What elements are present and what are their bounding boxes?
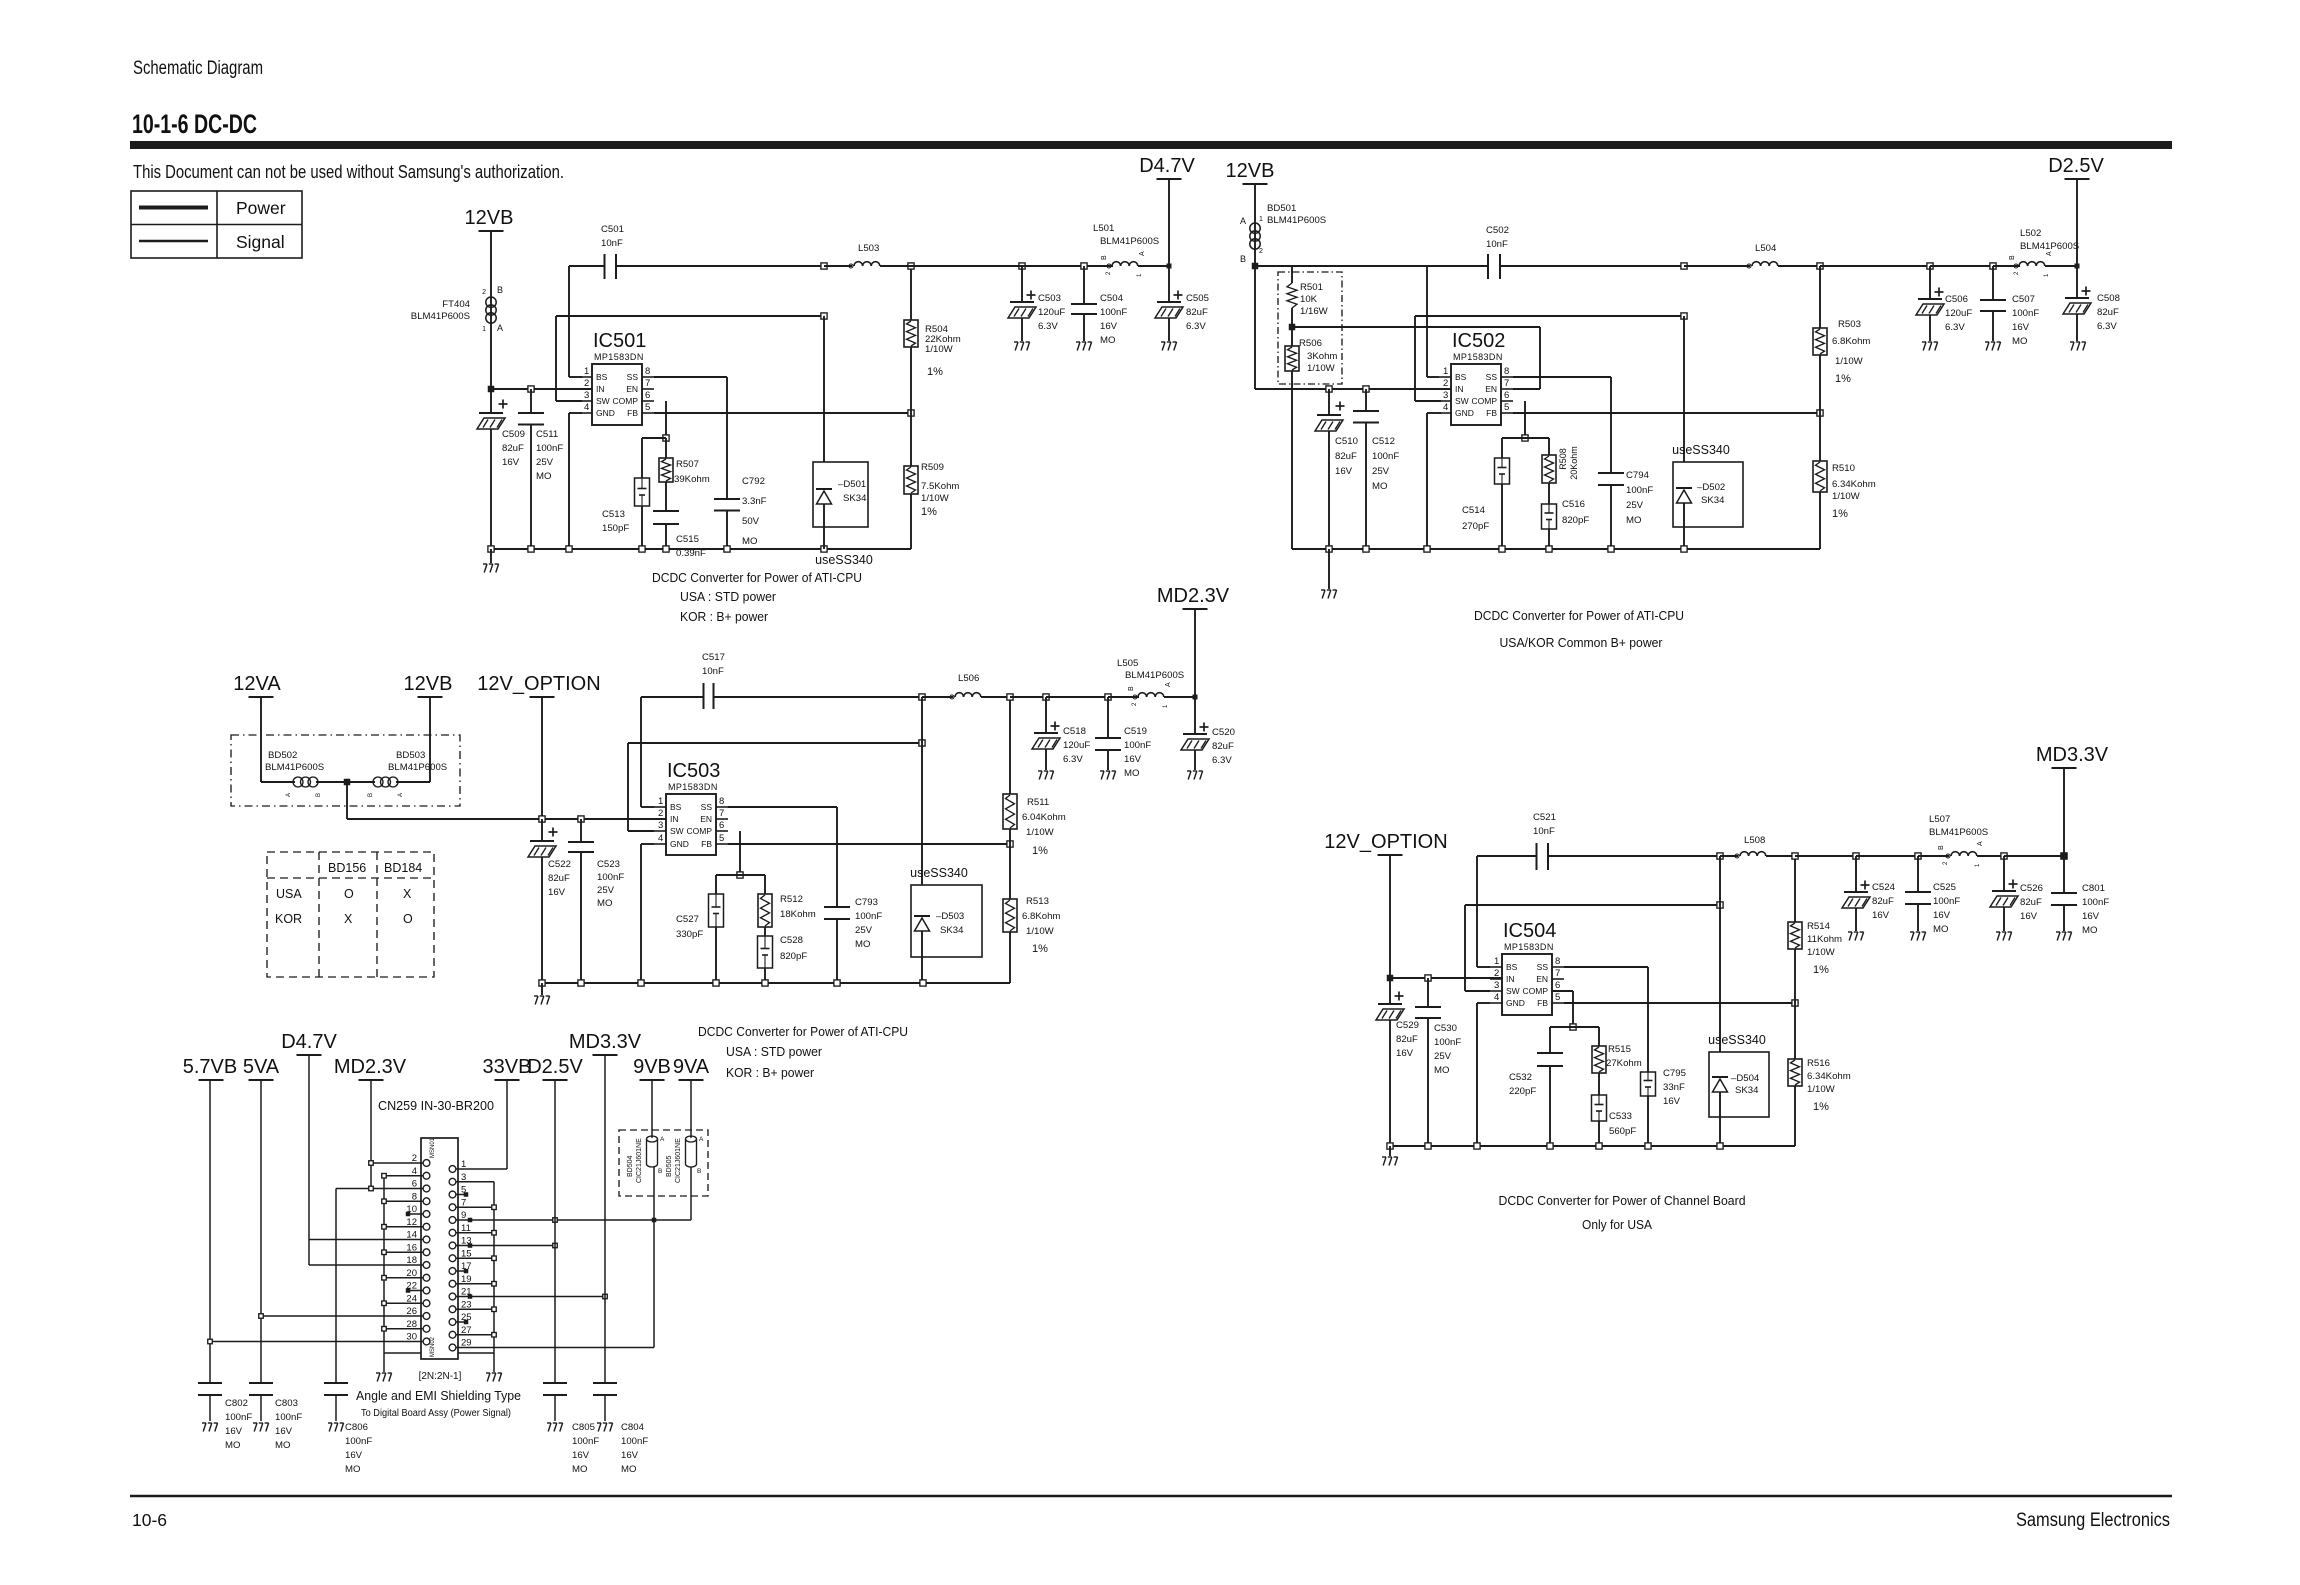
svg-text:16V: 16V [548, 887, 566, 898]
svg-text:25V: 25V [855, 925, 873, 936]
svg-text:3: 3 [658, 820, 663, 831]
svg-text:1%: 1% [927, 366, 943, 378]
svg-text:R513: R513 [1026, 896, 1049, 907]
svg-text:2: 2 [658, 808, 663, 819]
svg-text:25V: 25V [597, 885, 615, 896]
svg-text:BD502: BD502 [268, 750, 297, 761]
svg-text:2: 2 [1443, 378, 1448, 389]
svg-text:A: A [1165, 682, 1172, 687]
svg-text:COMP: COMP [1472, 396, 1498, 406]
svg-text:MO: MO [572, 1464, 587, 1475]
svg-text:82uF: 82uF [502, 443, 524, 454]
svg-text:560pF: 560pF [1609, 1126, 1636, 1137]
svg-text:SW: SW [596, 396, 610, 406]
svg-text:MO: MO [536, 471, 551, 482]
svg-text:B: B [497, 285, 503, 295]
svg-text:BD184: BD184 [384, 861, 422, 875]
svg-text:GND: GND [1506, 998, 1525, 1008]
svg-text:16V: 16V [1335, 466, 1353, 477]
svg-text:useSS340: useSS340 [1672, 443, 1730, 457]
svg-text:1: 1 [1494, 956, 1499, 967]
svg-text:B: B [368, 793, 374, 797]
svg-text:C515: C515 [676, 534, 699, 545]
svg-text:16V: 16V [345, 1450, 363, 1461]
svg-text:FB: FB [627, 408, 638, 418]
svg-text:C525: C525 [1933, 882, 1956, 893]
svg-text:C505: C505 [1186, 293, 1209, 304]
svg-text:BLM41P600S: BLM41P600S [388, 762, 447, 773]
svg-text:5VA: 5VA [243, 1056, 280, 1078]
svg-text:C501: C501 [601, 224, 624, 235]
svg-text:SW: SW [1506, 986, 1520, 996]
svg-text:1/10W: 1/10W [1807, 1084, 1836, 1095]
svg-text:100nF: 100nF [536, 443, 563, 454]
svg-text:6.3V: 6.3V [2097, 321, 2117, 332]
svg-text:A: A [398, 793, 404, 797]
svg-text:A: A [497, 323, 503, 333]
svg-text:6.34Kohm: 6.34Kohm [1807, 1071, 1851, 1082]
svg-text:6: 6 [1555, 980, 1560, 991]
svg-text:20Kohm: 20Kohm [1569, 446, 1579, 480]
svg-text:120uF: 120uF [1038, 307, 1065, 318]
svg-text:C520: C520 [1212, 727, 1235, 738]
svg-text:9VA: 9VA [673, 1056, 710, 1078]
svg-text:100nF: 100nF [345, 1436, 372, 1447]
svg-text:COMP: COMP [1523, 986, 1549, 996]
svg-text:7: 7 [1504, 378, 1509, 389]
svg-text:MP1583DN: MP1583DN [1504, 942, 1554, 952]
svg-text:100nF: 100nF [855, 911, 882, 922]
svg-text:12VB: 12VB [404, 673, 453, 695]
svg-text:1: 1 [482, 326, 486, 333]
svg-text:MO: MO [1372, 481, 1387, 492]
svg-text:6.8Kohm: 6.8Kohm [1832, 336, 1870, 347]
svg-text:12V_OPTION: 12V_OPTION [1324, 831, 1447, 853]
svg-text:39Kohm: 39Kohm [674, 474, 710, 485]
svg-text:IC501: IC501 [593, 330, 646, 352]
svg-text:DCDC Converter for Power of Ch: DCDC Converter for Power of Channel Boar… [1499, 1193, 1746, 1208]
svg-text:820pF: 820pF [780, 951, 807, 962]
svg-text:CIC21J601NE: CIC21J601NE [675, 1138, 682, 1183]
svg-text:C532: C532 [1509, 1072, 1532, 1083]
svg-text:82uF: 82uF [1396, 1034, 1418, 1045]
svg-text:A: A [2046, 251, 2053, 256]
svg-text:3Kohm: 3Kohm [1307, 351, 1337, 362]
svg-text:5: 5 [645, 402, 650, 413]
svg-text:6.04Kohm: 6.04Kohm [1022, 812, 1066, 823]
svg-text:L501: L501 [1093, 223, 1114, 234]
svg-text:2: 2 [1494, 968, 1499, 979]
svg-text:O: O [344, 887, 354, 901]
svg-text:R507: R507 [676, 459, 699, 470]
svg-text:IN: IN [1506, 974, 1515, 984]
svg-text:5.7VB: 5.7VB [183, 1056, 237, 1078]
svg-text:SS: SS [627, 372, 639, 382]
svg-text:8: 8 [645, 366, 650, 377]
svg-text:6.8Kohm: 6.8Kohm [1022, 911, 1060, 922]
svg-text:25V: 25V [1372, 466, 1390, 477]
svg-text:–D504: –D504 [1731, 1073, 1760, 1084]
svg-text:BLM41P600S: BLM41P600S [265, 762, 324, 773]
svg-text:3: 3 [584, 390, 589, 401]
svg-text:1%: 1% [1032, 943, 1048, 955]
svg-text:16V: 16V [2012, 322, 2030, 333]
svg-text:BLM41P600S: BLM41P600S [1100, 236, 1159, 247]
svg-text:1: 1 [1443, 366, 1448, 377]
svg-text:1: 1 [658, 796, 663, 807]
svg-text:2: 2 [482, 289, 486, 296]
svg-text:16V: 16V [275, 1426, 293, 1437]
svg-text:[2N:2N-1]: [2N:2N-1] [419, 1371, 462, 1382]
svg-text:CN259 IN-30-BR200: CN259 IN-30-BR200 [378, 1099, 494, 1113]
svg-text:12V_OPTION: 12V_OPTION [477, 673, 600, 695]
svg-text:C517: C517 [702, 652, 725, 663]
svg-text:1/10W: 1/10W [1026, 827, 1055, 838]
svg-text:100nF: 100nF [2082, 897, 2109, 908]
svg-text:L506: L506 [958, 673, 979, 684]
svg-text:3: 3 [1494, 980, 1499, 991]
svg-text:X: X [403, 887, 412, 901]
svg-text:10-6: 10-6 [132, 1510, 167, 1530]
svg-text:33VB: 33VB [483, 1056, 532, 1078]
svg-text:–D503: –D503 [936, 911, 964, 922]
svg-text:BLM41P600S: BLM41P600S [411, 311, 470, 322]
svg-text:16V: 16V [2020, 911, 2038, 922]
svg-text:BD505: BD505 [666, 1155, 673, 1177]
svg-text:X: X [344, 912, 353, 926]
svg-text:6.34Kohm: 6.34Kohm [1832, 479, 1876, 490]
svg-text:MSN01: MSN01 [430, 1137, 436, 1158]
svg-text:6.3V: 6.3V [1945, 322, 1965, 333]
svg-text:C803: C803 [275, 1398, 298, 1409]
svg-text:KOR : B+ power: KOR : B+ power [680, 610, 768, 624]
svg-text:25V: 25V [536, 457, 554, 468]
svg-text:COMP: COMP [687, 826, 713, 836]
svg-text:27Kohm: 27Kohm [1606, 1058, 1642, 1069]
svg-text:1%: 1% [1813, 964, 1829, 976]
svg-text:D4.7V: D4.7V [281, 1031, 337, 1053]
svg-text:A: A [1977, 841, 1984, 846]
svg-text:MD3.3V: MD3.3V [569, 1031, 642, 1053]
svg-text:1%: 1% [1832, 508, 1848, 520]
svg-text:5: 5 [719, 833, 724, 844]
svg-text:1%: 1% [1813, 1101, 1829, 1113]
svg-text:Signal: Signal [236, 232, 285, 252]
svg-text:1/10W: 1/10W [921, 493, 950, 504]
svg-text:C522: C522 [548, 859, 571, 870]
svg-text:220pF: 220pF [1509, 1086, 1536, 1097]
svg-text:2: 2 [584, 378, 589, 389]
svg-text:4: 4 [658, 833, 663, 844]
svg-text:C793: C793 [855, 897, 878, 908]
svg-text:MO: MO [275, 1440, 290, 1451]
svg-text:L508: L508 [1744, 835, 1765, 846]
svg-text:C502: C502 [1486, 225, 1509, 236]
svg-text:useSS340: useSS340 [1708, 1033, 1766, 1047]
svg-text:B: B [1240, 254, 1246, 264]
svg-text:GND: GND [1455, 408, 1474, 418]
svg-text:MO: MO [597, 898, 612, 909]
svg-text:EN: EN [700, 814, 712, 824]
svg-text:16V: 16V [1933, 910, 1951, 921]
svg-text:C801: C801 [2082, 883, 2105, 894]
svg-text:R508: R508 [1558, 448, 1568, 470]
svg-text:C513: C513 [602, 509, 625, 520]
svg-text:IC504: IC504 [1503, 920, 1556, 942]
svg-text:B: B [1128, 686, 1135, 691]
svg-text:330pF: 330pF [676, 929, 703, 940]
svg-text:6: 6 [645, 390, 650, 401]
svg-text:O: O [403, 912, 413, 926]
svg-text:BS: BS [1455, 372, 1467, 382]
svg-text:C514: C514 [1462, 505, 1486, 516]
svg-text:C507: C507 [2012, 294, 2035, 305]
svg-text:C530: C530 [1434, 1023, 1457, 1034]
svg-text:B: B [316, 793, 322, 797]
svg-text:useSS340: useSS340 [815, 553, 873, 567]
svg-text:16V: 16V [621, 1450, 639, 1461]
svg-text:6.3V: 6.3V [1212, 755, 1232, 766]
svg-text:MO: MO [1100, 335, 1115, 346]
svg-text:82uF: 82uF [1186, 307, 1208, 318]
svg-text:100nF: 100nF [1626, 485, 1653, 496]
svg-text:6.3V: 6.3V [1038, 321, 1058, 332]
svg-text:MD2.3V: MD2.3V [1157, 585, 1230, 607]
svg-text:IN: IN [670, 814, 679, 824]
svg-text:C519: C519 [1124, 726, 1147, 737]
svg-text:IC503: IC503 [667, 760, 720, 782]
svg-text:Samsung Electronics: Samsung Electronics [2016, 1510, 2170, 1531]
svg-text:MO: MO [855, 939, 870, 950]
svg-text:C521: C521 [1533, 812, 1556, 823]
svg-text:Only for USA: Only for USA [1582, 1218, 1653, 1232]
svg-text:R512: R512 [780, 894, 803, 905]
svg-text:82uF: 82uF [1872, 896, 1894, 907]
svg-text:5: 5 [1504, 402, 1509, 413]
svg-text:BD503: BD503 [396, 750, 425, 761]
svg-text:R515: R515 [1608, 1044, 1631, 1055]
svg-text:16V: 16V [1872, 910, 1890, 921]
svg-text:KOR: KOR [275, 912, 302, 926]
svg-text:4: 4 [1443, 402, 1448, 413]
svg-text:R503: R503 [1838, 319, 1861, 330]
svg-text:C516: C516 [1562, 499, 1585, 510]
svg-text:L502: L502 [2020, 228, 2041, 239]
svg-text:1/16W: 1/16W [1300, 306, 1329, 317]
svg-text:5: 5 [1555, 992, 1560, 1003]
svg-text:SK34: SK34 [1701, 495, 1725, 506]
svg-text:100nF: 100nF [1434, 1037, 1461, 1048]
svg-text:10nF: 10nF [1533, 826, 1555, 837]
svg-text:CIC21J601NE: CIC21J601NE [636, 1138, 643, 1183]
svg-text:C523: C523 [597, 859, 620, 870]
svg-text:25V: 25V [1434, 1051, 1452, 1062]
svg-text:R516: R516 [1807, 1058, 1830, 1069]
svg-text:MP1583DN: MP1583DN [1453, 352, 1503, 362]
svg-text:C806: C806 [345, 1422, 368, 1433]
svg-text:C527: C527 [676, 914, 699, 925]
svg-text:B: B [697, 1168, 701, 1175]
svg-text:1/10W: 1/10W [1307, 363, 1336, 374]
svg-text:KOR : B+ power: KOR : B+ power [726, 1066, 814, 1080]
svg-text:IN: IN [596, 384, 605, 394]
svg-text:D2.5V: D2.5V [2048, 155, 2104, 177]
svg-text:82uF: 82uF [1335, 451, 1357, 462]
svg-text:SS: SS [1486, 372, 1498, 382]
svg-text:DCDC Converter for Power of AT: DCDC Converter for Power of ATI-CPU [652, 570, 862, 585]
svg-text:USA : STD power: USA : STD power [726, 1045, 822, 1059]
svg-text:IC502: IC502 [1452, 330, 1505, 352]
svg-text:SW: SW [670, 826, 684, 836]
svg-text:16V: 16V [1100, 321, 1118, 332]
svg-text:150pF: 150pF [602, 523, 629, 534]
svg-text:C802: C802 [225, 1398, 248, 1409]
svg-text:C533: C533 [1609, 1111, 1632, 1122]
svg-text:C524: C524 [1872, 882, 1896, 893]
svg-text:100nF: 100nF [1100, 307, 1127, 318]
svg-text:C503: C503 [1038, 293, 1061, 304]
svg-text:To Digital Board Assy (Power S: To Digital Board Assy (Power Signal) [361, 1408, 511, 1419]
svg-text:820pF: 820pF [1562, 515, 1589, 526]
svg-text:–D501: –D501 [838, 479, 866, 490]
svg-text:270pF: 270pF [1462, 521, 1489, 532]
svg-text:C792: C792 [742, 476, 765, 487]
svg-text:1%: 1% [921, 506, 937, 518]
svg-text:MO: MO [1933, 924, 1948, 935]
svg-text:3: 3 [1443, 390, 1448, 401]
svg-text:1/10W: 1/10W [1832, 491, 1861, 502]
svg-text:C805: C805 [572, 1422, 595, 1433]
svg-text:MD3.3V: MD3.3V [2036, 744, 2109, 766]
svg-text:10-1-6 DC-DC: 10-1-6 DC-DC [132, 109, 257, 139]
svg-text:C509: C509 [502, 429, 525, 440]
svg-text:4: 4 [1494, 992, 1499, 1003]
svg-text:COMP: COMP [613, 396, 639, 406]
svg-text:1/10W: 1/10W [1807, 947, 1836, 958]
svg-text:SS: SS [1537, 962, 1549, 972]
svg-text:C510: C510 [1335, 436, 1358, 447]
svg-text:R514: R514 [1807, 921, 1831, 932]
svg-text:BD156: BD156 [328, 861, 366, 875]
svg-text:L507: L507 [1929, 814, 1950, 825]
svg-text:18Kohm: 18Kohm [780, 909, 816, 920]
svg-text:100nF: 100nF [572, 1436, 599, 1447]
svg-text:BLM41P600S: BLM41P600S [1125, 670, 1184, 681]
svg-text:7: 7 [1555, 968, 1560, 979]
svg-text:12VB: 12VB [465, 207, 514, 229]
svg-text:L503: L503 [858, 243, 879, 254]
svg-text:A: A [1139, 251, 1146, 256]
svg-text:C518: C518 [1063, 726, 1086, 737]
svg-text:A: A [699, 1136, 704, 1143]
svg-text:FT404: FT404 [442, 299, 470, 310]
svg-text:C795: C795 [1663, 1068, 1686, 1079]
svg-text:EN: EN [626, 384, 638, 394]
svg-text:120uF: 120uF [1945, 308, 1972, 319]
svg-text:MO: MO [1124, 768, 1139, 779]
svg-text:33nF: 33nF [1663, 1082, 1685, 1093]
svg-text:MSN02: MSN02 [430, 1336, 436, 1357]
svg-text:1%: 1% [1835, 373, 1851, 385]
svg-text:MO: MO [345, 1464, 360, 1475]
svg-text:Power: Power [236, 198, 286, 218]
svg-text:16V: 16V [502, 457, 520, 468]
svg-text:B: B [2009, 255, 2016, 260]
svg-text:SK34: SK34 [843, 493, 867, 504]
svg-text:SS: SS [701, 802, 713, 812]
svg-text:16V: 16V [225, 1426, 243, 1437]
svg-text:R506: R506 [1299, 338, 1322, 349]
svg-text:Angle and EMI Shielding Type: Angle and EMI Shielding Type [356, 1388, 521, 1403]
svg-text:BS: BS [1506, 962, 1518, 972]
svg-text:7: 7 [645, 378, 650, 389]
svg-text:100nF: 100nF [1124, 740, 1151, 751]
svg-text:USA/KOR Common B+ power: USA/KOR Common B+ power [1500, 636, 1663, 650]
svg-text:50V: 50V [742, 516, 760, 527]
svg-text:16V: 16V [1663, 1096, 1681, 1107]
svg-text:L505: L505 [1117, 658, 1138, 669]
svg-text:25V: 25V [1626, 500, 1644, 511]
svg-text:USA : STD power: USA : STD power [680, 590, 776, 604]
svg-text:C529: C529 [1396, 1020, 1419, 1031]
svg-text:A: A [660, 1136, 665, 1143]
svg-text:EN: EN [1485, 384, 1497, 394]
svg-text:8: 8 [1504, 366, 1509, 377]
svg-text:8: 8 [1555, 956, 1560, 967]
svg-text:82uF: 82uF [2097, 307, 2119, 318]
svg-text:100nF: 100nF [621, 1436, 648, 1447]
svg-text:7.5Kohm: 7.5Kohm [921, 481, 959, 492]
svg-text:100nF: 100nF [1933, 896, 1960, 907]
svg-text:IN: IN [1455, 384, 1464, 394]
svg-text:GND: GND [596, 408, 615, 418]
svg-text:SK34: SK34 [1735, 1085, 1759, 1096]
svg-text:L504: L504 [1755, 243, 1777, 254]
svg-text:16V: 16V [1124, 754, 1142, 765]
svg-text:C512: C512 [1372, 436, 1395, 447]
svg-text:BLM41P600S: BLM41P600S [1929, 827, 1988, 838]
svg-text:EN: EN [1536, 974, 1548, 984]
svg-text:MP1583DN: MP1583DN [594, 352, 644, 362]
svg-text:USA: USA [276, 887, 302, 901]
svg-text:FB: FB [1537, 998, 1548, 1008]
svg-text:MD2.3V: MD2.3V [334, 1056, 407, 1078]
svg-text:DCDC Converter for Power of AT: DCDC Converter for Power of ATI-CPU [1474, 608, 1684, 623]
svg-text:6: 6 [719, 820, 724, 831]
svg-text:8: 8 [719, 796, 724, 807]
svg-text:12VB: 12VB [1226, 160, 1275, 182]
svg-text:16V: 16V [572, 1450, 590, 1461]
svg-text:SK34: SK34 [940, 925, 964, 936]
svg-text:12VA: 12VA [233, 673, 281, 695]
svg-text:100nF: 100nF [597, 872, 624, 883]
svg-text:16V: 16V [1396, 1048, 1414, 1059]
svg-text:82uF: 82uF [548, 873, 570, 884]
svg-text:1: 1 [584, 366, 589, 377]
svg-text:1/10W: 1/10W [925, 344, 954, 355]
svg-text:MO: MO [1434, 1065, 1449, 1076]
svg-text:6.3V: 6.3V [1186, 321, 1206, 332]
svg-text:C804: C804 [621, 1422, 645, 1433]
svg-text:C508: C508 [2097, 293, 2120, 304]
svg-text:10K: 10K [1300, 294, 1318, 305]
svg-text:10nF: 10nF [1486, 239, 1508, 250]
svg-text:11Kohm: 11Kohm [1807, 934, 1842, 945]
svg-text:100nF: 100nF [1372, 451, 1399, 462]
svg-text:B: B [1101, 255, 1108, 260]
svg-text:Schematic Diagram: Schematic Diagram [133, 58, 263, 79]
svg-text:3.3nF: 3.3nF [742, 496, 767, 507]
